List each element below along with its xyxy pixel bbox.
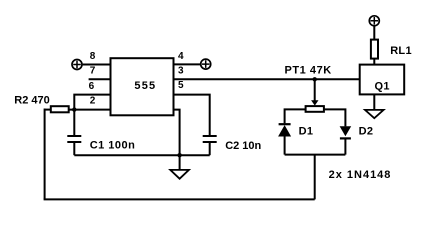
resistor R2: [14, 94, 68, 112]
svg-text:PT1 47K: PT1 47K: [285, 65, 332, 77]
wire pin 4: [174, 63, 201, 65]
wire riser to diode bottom: [314, 155, 316, 200]
wire ground rail C1 to C2: [74, 154, 209, 156]
potentiometer PT1 wiper arrow: [311, 79, 318, 105]
wire bottom rail: [44, 198, 315, 200]
wire pin 1 jog to ground: [174, 110, 180, 156]
svg-text:3: 3: [178, 66, 184, 77]
svg-text:C2 10n: C2 10n: [225, 140, 261, 152]
wire pin 5 to C2: [174, 95, 210, 136]
svg-text:5: 5: [178, 80, 184, 91]
wire relay to Q1: [373, 59, 375, 65]
wire pot left terminal: [285, 109, 306, 123]
svg-text:8: 8: [90, 51, 96, 62]
capacitor C1: [67, 110, 135, 156]
wire pin 3 output to Q1: [174, 78, 360, 80]
transistor Q1 (box): [360, 65, 405, 95]
power supply VCC symbol left (circle-plus): [72, 60, 82, 70]
node junction ground: [177, 153, 181, 157]
wire Q1 emitter down: [373, 94, 375, 110]
ground symbol GND2: [365, 110, 384, 118]
svg-text:7: 7: [90, 66, 96, 77]
power supply VCC symbol right (circle-plus): [201, 59, 211, 69]
svg-text:R2 470: R2 470: [14, 94, 49, 106]
diode D2 (cathode down): [340, 125, 374, 154]
wire pin 8: [83, 64, 111, 66]
wire VCC to relay coil: [373, 26, 375, 39]
capacitor C2: [203, 136, 262, 155]
svg-text:555: 555: [134, 80, 156, 92]
svg-text:C1 100n: C1 100n: [90, 139, 136, 151]
node junction pot wiper on pin3 wire: [313, 77, 317, 81]
wire R2 left leg down: [44, 109, 46, 200]
svg-text:2: 2: [90, 96, 96, 107]
diode D1 (cathode up): [278, 124, 313, 154]
wire pot right terminal: [324, 109, 346, 126]
svg-text:Q1: Q1: [375, 80, 390, 92]
wire diode bottom bar: [285, 154, 346, 156]
wire pin 6: [74, 95, 110, 110]
svg-text:RL1: RL1: [390, 45, 412, 57]
svg-text:D2: D2: [359, 125, 374, 137]
svg-text:D1: D1: [299, 125, 314, 137]
wire pin 7 stub: [89, 78, 111, 80]
wire pin 2: [69, 109, 111, 111]
svg-text:2x 1N4148: 2x 1N4148: [329, 169, 392, 181]
relay coil RL1: [371, 40, 412, 59]
power supply VCC symbol top right (circle-plus): [369, 16, 379, 26]
svg-text:4: 4: [178, 51, 184, 62]
node junction pins 2/6/R2/C1: [72, 107, 76, 111]
ground symbol GND1: [170, 155, 189, 179]
op-amp U1 555 timer body: [111, 58, 174, 115]
svg-text:6: 6: [89, 81, 95, 92]
potentiometer PT1 body: [285, 65, 332, 112]
